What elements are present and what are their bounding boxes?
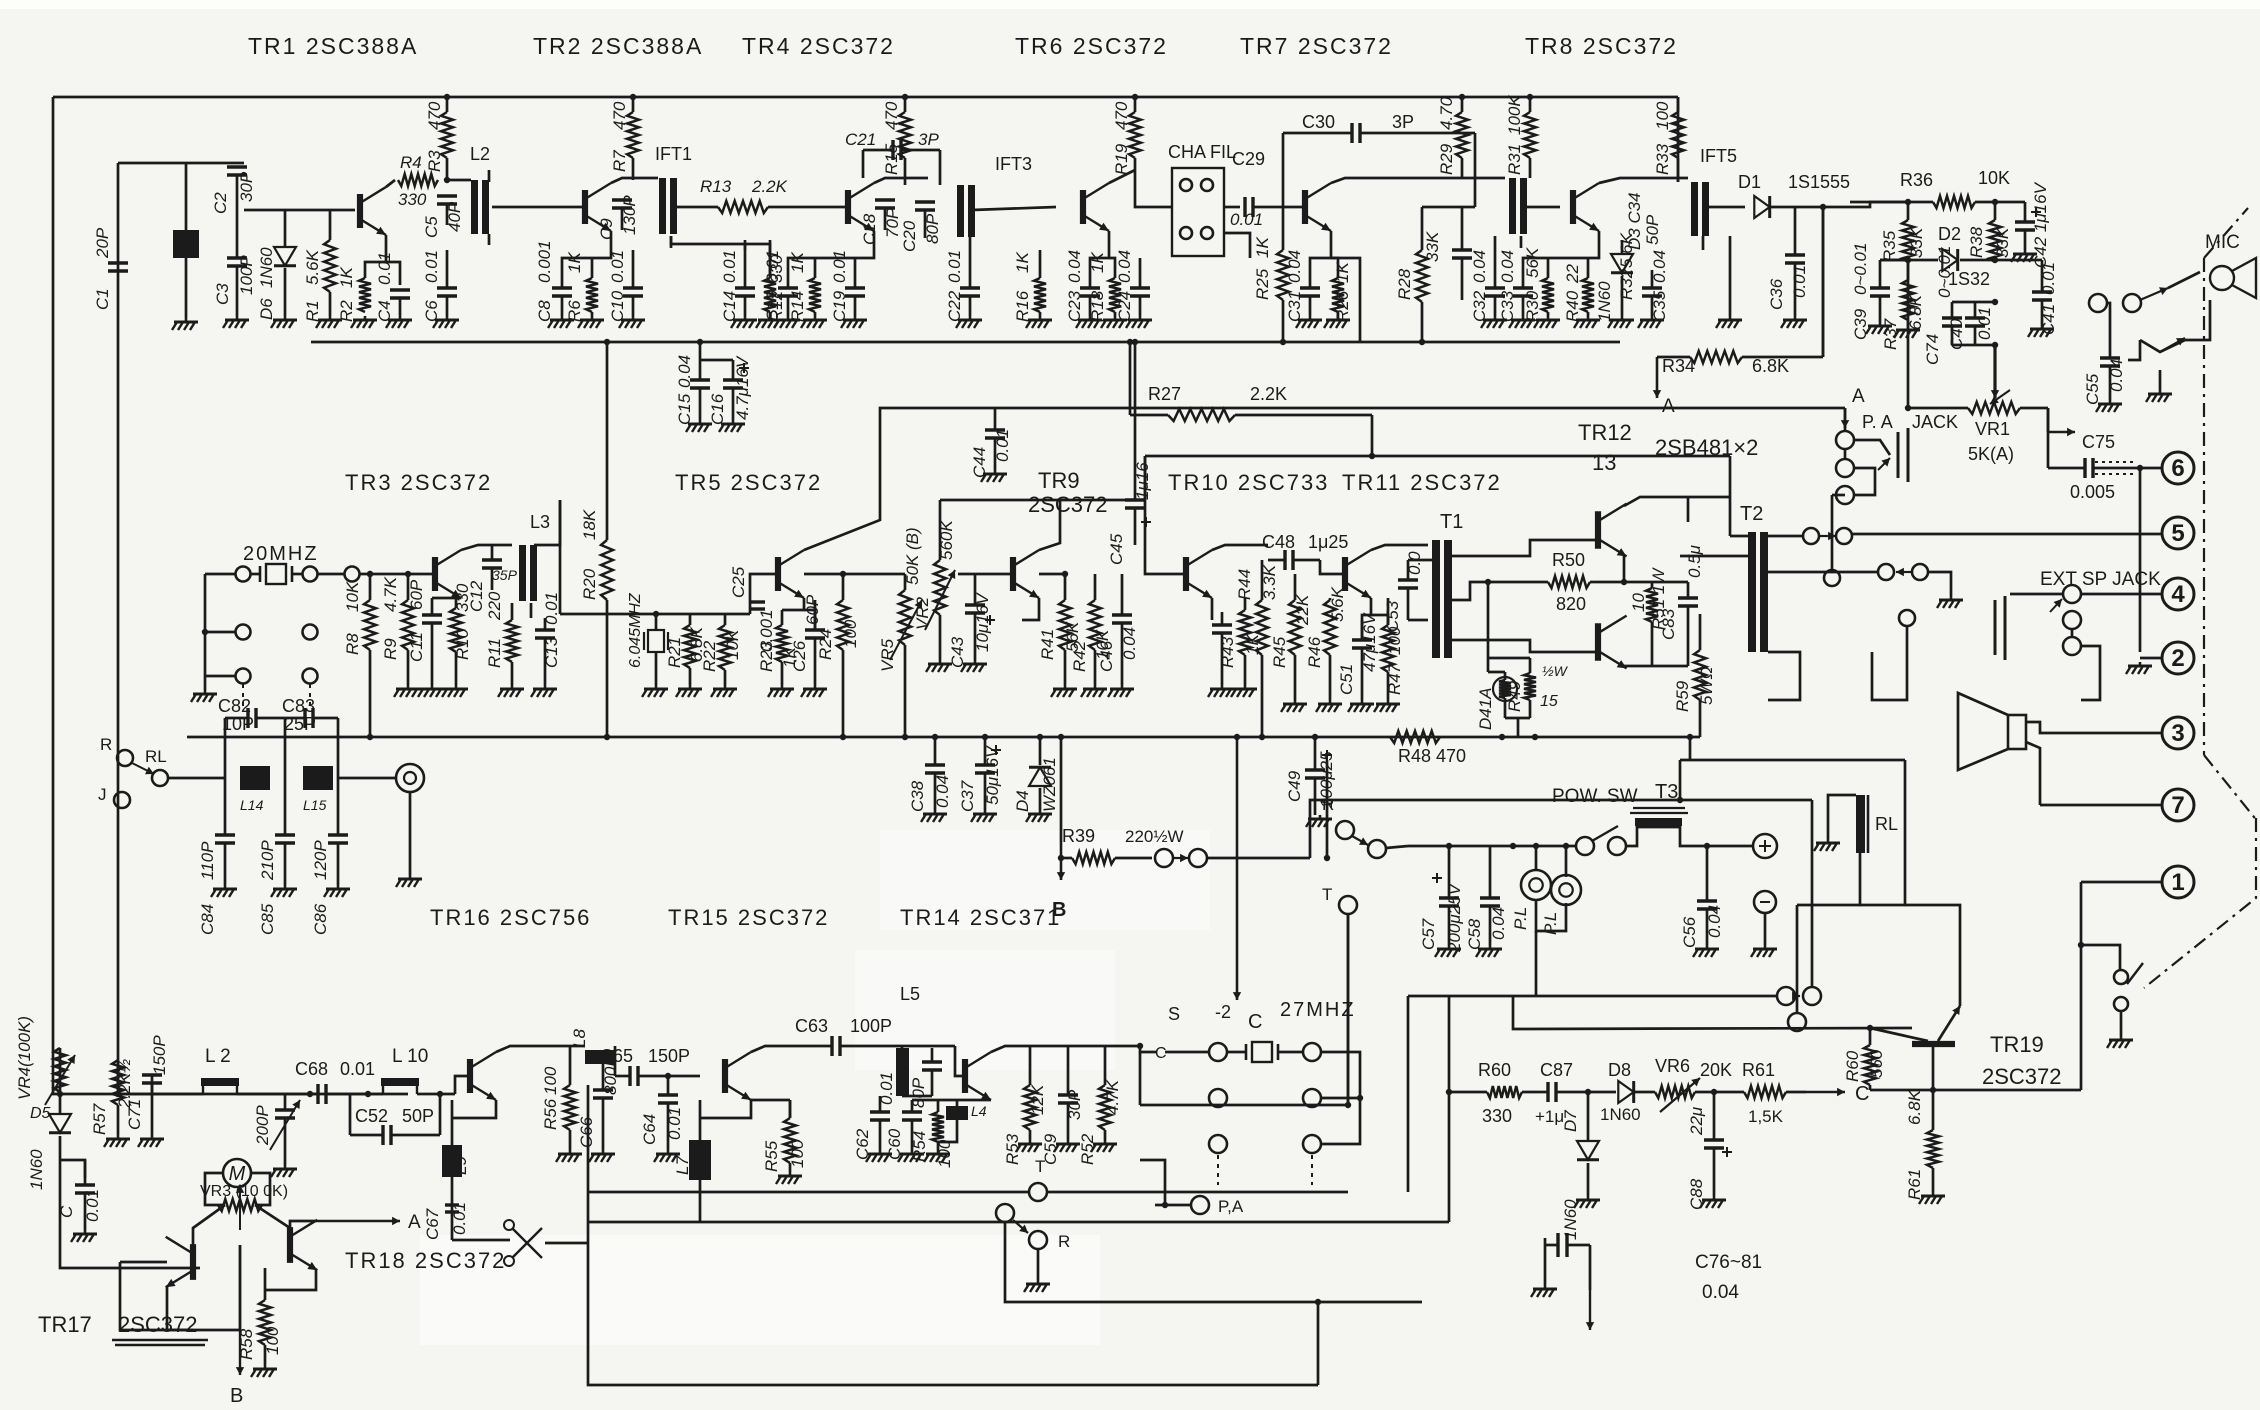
resistor R50 820 <box>1485 550 1598 614</box>
switch 27M row2 <box>1209 1089 1363 1107</box>
ground R23 <box>768 685 794 697</box>
svg-text:TR10 2SC733: TR10 2SC733 <box>1168 470 1329 495</box>
inductor L1 <box>173 163 199 318</box>
ground C43 <box>926 660 987 672</box>
svg-text:R32: R32 <box>1617 268 1636 300</box>
capacitor C67 0.01 <box>423 1202 469 1240</box>
svg-text:0.01: 0.01 <box>665 1107 684 1140</box>
label TR5 <box>675 470 822 495</box>
svg-text:R40: R40 <box>1563 290 1582 322</box>
svg-text:VR2: VR2 <box>913 596 932 630</box>
wire detector node <box>1820 202 1908 210</box>
capacitor C40 0.01 <box>1947 302 1994 350</box>
label MIC <box>2205 232 2240 253</box>
wire T1 sec bot <box>1452 640 1595 652</box>
ground R47 <box>1374 700 1400 712</box>
ground mic <box>2146 370 2172 402</box>
resistor R57 2.2K <box>90 1059 134 1135</box>
svg-text:C22: C22 <box>945 290 964 322</box>
svg-text:C58: C58 <box>1465 918 1484 950</box>
transistor TR1 <box>360 187 386 235</box>
ground C57 <box>1435 945 1461 957</box>
resistor R46 5.6K <box>1305 586 1347 700</box>
ground C41 <box>2028 325 2054 337</box>
svg-text:S: S <box>1168 1004 1180 1024</box>
svg-text:6: 6 <box>2171 455 2184 482</box>
svg-text:1μ16: 1μ16 <box>1133 462 1152 500</box>
svg-text:20MHZ: 20MHZ <box>243 543 319 565</box>
capacitor C14 0.01 <box>720 240 755 322</box>
svg-text:C37: C37 <box>958 780 977 812</box>
ground C88 <box>1700 1196 1726 1208</box>
svg-text:R38: R38 <box>1967 226 1986 258</box>
capacitor C30 3P <box>1283 112 1475 207</box>
wire TR10 emitter <box>1211 598 1214 620</box>
svg-text:TR2 2SC388A: TR2 2SC388A <box>533 33 703 59</box>
resistor R21 6.8K <box>684 614 696 685</box>
resistor R4 330 <box>398 153 438 209</box>
svg-text:IFT3: IFT3 <box>995 154 1032 174</box>
label TR12 <box>1578 420 1758 475</box>
svg-text:TR14 2SC371: TR14 2SC371 <box>900 905 1061 930</box>
svg-text:C56: C56 <box>1680 916 1699 948</box>
label TR2 <box>533 33 703 59</box>
capacitor C35 0.04 <box>1642 250 1669 322</box>
svg-text:R47: R47 <box>1385 663 1404 695</box>
svg-text:D41A: D41A <box>1476 687 1495 730</box>
transistor TR19 <box>1870 1006 1960 1090</box>
diode D4 WZ061 <box>1013 737 1059 812</box>
svg-text:330: 330 <box>398 190 427 209</box>
capacitor C10 0.01 <box>608 250 643 322</box>
svg-text:0.04: 0.04 <box>1470 250 1489 283</box>
node D2b <box>1992 257 1998 263</box>
terminal minus <box>1754 891 1776 913</box>
svg-text:470: 470 <box>425 101 444 130</box>
svg-text:0.01: 0.01 <box>1790 265 1809 298</box>
terminal 1 <box>2162 866 2194 898</box>
wire det down <box>1822 207 1825 357</box>
svg-text:150P: 150P <box>648 1046 690 1066</box>
ground R55 <box>776 1172 802 1184</box>
wire TR15 collector <box>751 1046 812 1052</box>
svg-text:820: 820 <box>1556 594 1586 614</box>
svg-text:C38: C38 <box>908 780 927 812</box>
svg-text:4: 4 <box>2171 581 2185 608</box>
label IFT1 <box>655 144 692 164</box>
svg-text:R41: R41 <box>1038 629 1057 660</box>
svg-text:C40: C40 <box>1947 318 1966 350</box>
capacitor C83 0.5u <box>1659 544 1704 666</box>
svg-text:+1μ: +1μ <box>1535 1107 1564 1126</box>
svg-text:4.7K: 4.7K <box>1103 1079 1122 1115</box>
resistor R52 4.7K <box>1078 1046 1122 1165</box>
capacitor C85 210P <box>258 778 295 935</box>
crystal 6.045MHZ <box>644 614 668 685</box>
svg-text:R61: R61 <box>1742 1060 1775 1080</box>
capacitor C37 50u16V <box>958 737 1002 812</box>
capacitor C52 50P <box>350 1091 443 1145</box>
svg-text:4.7μ16V: 4.7μ16V <box>733 355 752 420</box>
varcap 200P <box>253 1094 300 1165</box>
transformer IFT4 <box>1509 178 1560 248</box>
svg-text:TR1 2SC388A: TR1 2SC388A <box>248 33 418 59</box>
ground C59 <box>1054 1140 1080 1152</box>
capacitor C38 0.04 <box>908 737 952 812</box>
svg-text:C24: C24 <box>1115 291 1134 322</box>
ground C31 <box>1296 316 1322 328</box>
ground R22 <box>711 685 737 697</box>
resistor R11 220 <box>485 591 518 685</box>
wire TR14 collector <box>991 1046 1105 1052</box>
svg-text:R46: R46 <box>1305 636 1324 668</box>
svg-text:P,A: P,A <box>1218 1197 1244 1216</box>
capacitor C41 0.01 <box>2032 260 2058 335</box>
capacitor C62 0.01 <box>853 1072 896 1160</box>
wire 1105 left <box>1139 1052 1142 1105</box>
wire TR4 emitter <box>788 231 874 278</box>
svg-text:R35: R35 <box>1880 230 1899 262</box>
wire R28 top <box>1422 206 1475 209</box>
ground C62 <box>866 1150 892 1162</box>
wire bottom right up <box>1315 1299 1321 1385</box>
ground D3 <box>1608 316 1634 328</box>
wire TR14 emitter <box>965 1099 991 1102</box>
svg-text:50P: 50P <box>1643 214 1662 245</box>
svg-text:R9: R9 <box>381 638 400 660</box>
svg-text:1K: 1K <box>1333 262 1352 283</box>
capacitor C6 0.01 <box>422 250 457 322</box>
svg-text:210P: 210P <box>258 840 277 881</box>
wire left frame <box>53 97 408 1094</box>
resistor R61 1.5K <box>1714 1060 1806 1126</box>
svg-text:P.L: P.L <box>1511 907 1530 930</box>
svg-text:TR9: TR9 <box>1038 468 1080 493</box>
svg-text:C18: C18 <box>860 213 879 245</box>
ground C42 <box>2011 250 2037 262</box>
svg-text:100: 100 <box>263 1326 282 1355</box>
wire TR9 collector <box>1039 500 1060 550</box>
diode D41A <box>1476 672 1517 730</box>
svg-text:2: 2 <box>2171 645 2184 672</box>
svg-text:0.0: 0.0 <box>1405 551 1424 575</box>
svg-text:R50: R50 <box>1552 550 1585 570</box>
svg-text:5.6K: 5.6K <box>1328 586 1347 622</box>
capacitor C32 0.04 <box>1470 236 1505 322</box>
ground R46 <box>1316 700 1342 712</box>
svg-text:L4: L4 <box>971 1103 987 1119</box>
wire D5 down <box>60 1160 200 1268</box>
svg-text:220: 220 <box>485 591 504 621</box>
resistor R19 470 <box>1112 97 1141 175</box>
svg-text:L 10: L 10 <box>392 1046 428 1067</box>
svg-text:0.04: 0.04 <box>1065 250 1084 283</box>
wire TR6 emitter <box>1090 231 1115 278</box>
terminal plus <box>1753 834 1777 858</box>
resistor R47 100 <box>1382 598 1404 700</box>
transistor TR2 <box>585 183 611 231</box>
svg-text:C2: C2 <box>211 192 230 214</box>
svg-text:12K: 12K <box>1028 1084 1047 1115</box>
transformer IFT3 <box>957 154 1032 237</box>
svg-text:C88: C88 <box>1687 1178 1706 1210</box>
ground C6 <box>433 316 459 328</box>
svg-text:R3: R3 <box>425 150 444 172</box>
svg-text:0.5μ: 0.5μ <box>1685 544 1704 578</box>
svg-text:0.01: 0.01 <box>83 1189 102 1222</box>
capacitor C-R28 <box>1452 207 1472 300</box>
svg-text:R: R <box>1058 1232 1070 1251</box>
wire RL to filter <box>168 777 225 780</box>
capacitor C 0.01 <box>57 1160 102 1230</box>
svg-text:C85: C85 <box>258 903 277 935</box>
svg-text:C74: C74 <box>1923 334 1942 365</box>
svg-text:D1: D1 <box>1738 172 1761 192</box>
potentiometer VR1 5K(A) <box>1908 390 2075 464</box>
svg-text:0.04: 0.04 <box>1285 250 1304 283</box>
svg-text:L3: L3 <box>530 512 550 532</box>
svg-text:22: 22 <box>1563 264 1582 284</box>
resistor R33 100 <box>1653 97 1684 182</box>
svg-text:TR8 2SC372: TR8 2SC372 <box>1525 33 1678 59</box>
wire TR17 cell <box>120 1245 240 1330</box>
transformer L2 <box>447 144 560 245</box>
svg-text:IFT5: IFT5 <box>1700 146 1737 166</box>
svg-text:C16: C16 <box>708 393 727 425</box>
wire IFT1 sec bottom <box>671 236 770 278</box>
capacitor C29 0.01 <box>1230 149 1303 229</box>
resistor R2 1K <box>337 267 371 322</box>
svg-text:1,5K: 1,5K <box>1748 1107 1784 1126</box>
ground C26 <box>801 685 827 697</box>
transistor TR14 <box>965 1052 991 1100</box>
svg-text:100: 100 <box>1653 101 1672 130</box>
svg-text:VR1: VR1 <box>1975 419 2010 439</box>
svg-text:C39: C39 <box>1851 308 1870 340</box>
svg-text:C68: C68 <box>295 1059 328 1079</box>
ground R21 <box>676 685 702 697</box>
resistor R45 22K <box>1270 574 1312 700</box>
ground D4 <box>1026 810 1052 822</box>
wire R41 top <box>1039 571 1068 577</box>
wire L2b leads <box>118 1093 310 1096</box>
svg-text:1K: 1K <box>1088 252 1107 273</box>
resistor R61 6.8K <box>1905 1089 1939 1200</box>
wire TR8 collector <box>1599 178 1688 183</box>
wire pwr node <box>1408 843 1577 849</box>
svg-text:R28: R28 <box>1395 268 1414 300</box>
label 6.045MHZ <box>627 592 644 668</box>
svg-text:1K: 1K <box>565 252 584 273</box>
dash-dot right low <box>2144 818 2256 988</box>
svg-text:C25: C25 <box>729 566 748 598</box>
wire L3 out <box>534 500 560 545</box>
svg-text:C76~81: C76~81 <box>1695 1252 1762 1273</box>
svg-text:60P: 60P <box>407 579 426 610</box>
wire C64 node <box>665 1073 700 1079</box>
resistor R51 10 1W <box>1629 567 1668 666</box>
label R25 <box>1253 237 1272 300</box>
ground L1 <box>172 318 198 330</box>
ground D7 <box>1574 1196 1600 1208</box>
resistor R40 22 <box>1563 258 1594 322</box>
svg-text:130P: 130P <box>620 195 639 235</box>
svg-text:T2: T2 <box>1740 503 1763 525</box>
switch 27M row3 <box>1209 1098 1360 1185</box>
transistor TR3 <box>367 550 461 598</box>
svg-text:R55: R55 <box>762 1140 781 1172</box>
label D3 C34 <box>1625 192 1662 250</box>
resistor R18 1K <box>1088 252 1121 322</box>
svg-text:J: J <box>98 785 107 804</box>
wire TR2 collector <box>611 178 658 183</box>
label 1N60 D8 <box>1600 1060 1641 1124</box>
ground R58 <box>251 1365 277 1377</box>
motor M <box>223 1159 251 1187</box>
ground C46 <box>1108 685 1134 697</box>
capacitor C63 100P <box>795 1016 892 1056</box>
resistor R48 470 <box>1390 731 1466 766</box>
ground C58 <box>1476 945 1502 957</box>
wire M frame <box>205 1173 270 1205</box>
capacitor C55 0.04 <box>2083 330 2126 405</box>
label TR11 <box>1342 470 1502 495</box>
svg-text:R19: R19 <box>1112 143 1131 175</box>
svg-text:150P: 150P <box>150 1035 169 1075</box>
capacitor C36 0.01 <box>1767 207 1809 316</box>
svg-text:0.04: 0.04 <box>1650 250 1669 283</box>
transistor TR15 <box>725 1052 751 1100</box>
ground R40 <box>1574 316 1600 328</box>
terminal T bottom <box>1029 1157 1047 1201</box>
resistor R37 6.8K <box>1881 260 1925 350</box>
ground R26 <box>1324 316 1350 328</box>
capacitor C11 60P <box>407 579 442 685</box>
svg-text:TR5 2SC372: TR5 2SC372 <box>675 470 822 495</box>
svg-text:40P: 40P <box>445 201 464 232</box>
arrow A left <box>1653 357 1675 417</box>
svg-text:R48 470: R48 470 <box>1398 746 1466 766</box>
resistor R34 6.8K <box>1657 351 1823 376</box>
svg-text:R45: R45 <box>1270 636 1289 668</box>
svg-text:POW. SW: POW. SW <box>1552 786 1638 807</box>
ground C4 <box>386 316 412 328</box>
capacitor C12 35P <box>467 545 518 612</box>
wire IFT5 sec <box>1706 206 1745 209</box>
node D2a <box>1905 257 1911 263</box>
ground C60 <box>898 1150 924 1162</box>
resistor R27 2.2K <box>1130 384 1372 421</box>
svg-text:R59: R59 <box>1673 680 1692 712</box>
svg-text:1K: 1K <box>1013 252 1032 273</box>
capacitor C66 800P <box>577 1055 620 1150</box>
arrow A TR18 <box>290 1212 421 1233</box>
capacitor C82 10P <box>225 708 285 778</box>
wire long A line <box>804 408 1845 550</box>
svg-text:0.01: 0.01 <box>450 1202 469 1235</box>
wire audio bus drop <box>1145 456 1183 574</box>
svg-text:2.2K: 2.2K <box>751 177 788 196</box>
label TR15 <box>668 905 829 930</box>
wire term7 link <box>2040 804 2162 807</box>
arrow C down <box>1233 737 1263 1033</box>
svg-text:100: 100 <box>541 1066 560 1095</box>
wire TR14 out right <box>1105 1043 1157 1052</box>
svg-text:0~0.01: 0~0.01 <box>1851 243 1870 295</box>
svg-text:0.01: 0.01 <box>2039 262 2058 295</box>
svg-text:3: 3 <box>2171 720 2184 747</box>
svg-text:R44: R44 <box>1235 569 1254 600</box>
wire inner top link <box>118 162 244 165</box>
svg-text:R30: R30 <box>1523 290 1542 322</box>
svg-text:470: 470 <box>610 101 629 130</box>
terminal 3 <box>2162 717 2194 749</box>
ground C35 <box>1638 316 1664 328</box>
capacitor C64 0.01 <box>640 1076 684 1150</box>
svg-text:C: C <box>1855 1083 1869 1105</box>
arrow B <box>1052 842 1066 921</box>
svg-text:TR7 2SC372: TR7 2SC372 <box>1240 33 1393 59</box>
wire R60 feed <box>1408 996 1449 1222</box>
ground R41 <box>1051 685 1077 697</box>
capacitor C20 80P <box>900 202 942 252</box>
wire bus drop B <box>1060 737 1063 842</box>
diode D7 1N60 <box>1561 1089 1599 1240</box>
svg-text:0.04: 0.04 <box>2107 359 2126 392</box>
svg-text:2SC372: 2SC372 <box>1982 1064 2062 1089</box>
capacitor C76~81 <box>1531 1233 1762 1330</box>
mic lower contact <box>2128 300 2210 360</box>
svg-text:3.3K: 3.3K <box>1260 564 1279 600</box>
inductor L10 <box>365 1046 455 1097</box>
wire R27 left up <box>1129 342 1132 415</box>
svg-text:3P: 3P <box>918 130 939 149</box>
svg-text:C11: C11 <box>407 632 426 662</box>
ground C51 <box>1348 700 1374 712</box>
filter CHA FIL <box>1168 142 1250 258</box>
svg-text:5.6K: 5.6K <box>303 249 322 285</box>
transformer T1 <box>1408 511 1463 658</box>
wire VR2 wiper to TR9 <box>958 573 1010 576</box>
ground C38 <box>921 810 947 822</box>
capacitor C74 0~0.01 <box>1923 246 1998 365</box>
resistor R12 330 <box>764 240 786 322</box>
resistor R6 1K <box>565 252 598 322</box>
wire TR5 out <box>804 571 905 577</box>
capacitor C84 110P <box>198 778 235 935</box>
ground C66 <box>589 1150 615 1162</box>
svg-text:C52: C52 <box>355 1106 388 1126</box>
ground xtal2 <box>642 685 668 697</box>
svg-text:C14: C14 <box>720 291 739 322</box>
ground R61 <box>1919 1192 1945 1204</box>
resistor R23 1K <box>757 610 799 685</box>
ground C39 <box>1866 322 1892 334</box>
capacitor C2 <box>211 167 256 258</box>
wire mid bottom bus <box>187 734 1700 740</box>
svg-text:R14: R14 <box>788 291 807 322</box>
svg-text:C86: C86 <box>311 903 330 935</box>
resistor R30 56K <box>1523 247 1554 322</box>
svg-text:R60: R60 <box>1843 1050 1862 1082</box>
svg-text:C31: C31 <box>1285 291 1304 322</box>
svg-text:C82: C82 <box>218 696 251 716</box>
wire long 1222 <box>588 1221 1449 1224</box>
inductor L8 <box>560 1029 615 1064</box>
svg-text:120P: 120P <box>311 840 330 880</box>
terminal J <box>98 785 130 808</box>
wire top bus drop to IFT5 <box>1677 97 1680 182</box>
